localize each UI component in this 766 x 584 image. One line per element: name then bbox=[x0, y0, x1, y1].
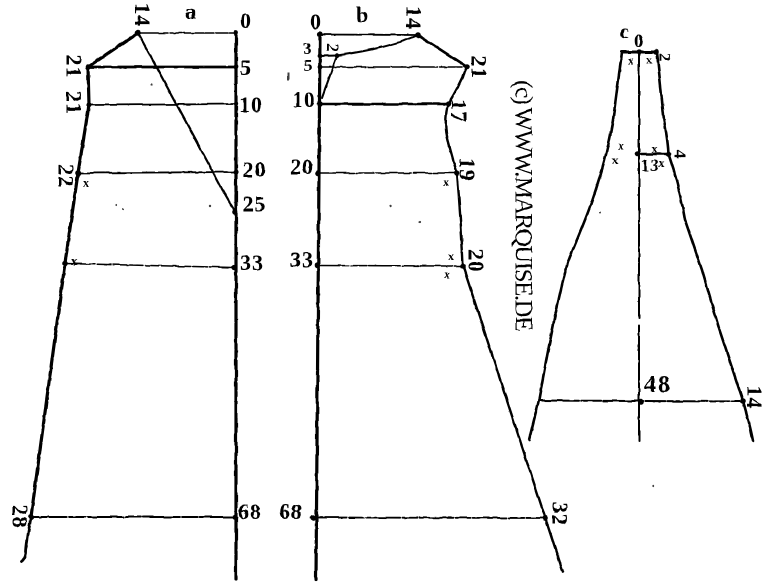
svg-text:2: 2 bbox=[656, 53, 675, 62]
svg-text:14: 14 bbox=[402, 6, 427, 30]
svg-text:x: x bbox=[83, 176, 89, 190]
piece a left edge 21 to 21 bbox=[88, 67, 89, 105]
piece a dots bbox=[28, 30, 238, 520]
piece a left edge 21 to 22 bbox=[78, 105, 89, 173]
svg-text:x: x bbox=[71, 254, 77, 268]
svg-text:x: x bbox=[444, 267, 450, 281]
piece a left edge below 28 with hook bbox=[21, 517, 31, 562]
piece b horizontal line 68 bbox=[313, 517, 545, 520]
svg-text:x: x bbox=[612, 153, 618, 167]
piece b side edge 17 to 19 bbox=[446, 104, 457, 173]
piece a left edge 22 to 33 bbox=[65, 173, 78, 263]
svg-text:20: 20 bbox=[464, 249, 489, 273]
piece b slanted line 2 down bbox=[322, 56, 337, 99]
piece b side edge 19 to 20 bbox=[457, 173, 463, 266]
piece a diagonal line 14 to 25 bbox=[138, 33, 235, 211]
piece b left vertical line (center front 0-68) bbox=[316, 34, 320, 579]
svg-text:33: 33 bbox=[240, 250, 264, 275]
svg-text:x: x bbox=[618, 139, 624, 153]
piece b dots bbox=[310, 31, 548, 520]
svg-text:68: 68 bbox=[279, 499, 303, 524]
piece c center vertical line upper bbox=[638, 52, 640, 318]
svg-text:a: a bbox=[185, 0, 197, 24]
piece a horizontal line 10 bbox=[89, 104, 236, 105]
svg-text:32: 32 bbox=[548, 502, 573, 526]
piece b horizontal line 33 bbox=[317, 265, 463, 268]
piece c top horizontal line bbox=[622, 51, 657, 54]
svg-text:33: 33 bbox=[290, 247, 314, 272]
piece b armhole curve 21 to 17 bbox=[448, 67, 467, 104]
piece b neck curve 2 to 14 bbox=[337, 35, 418, 56]
piece c horizontal line 48 bbox=[539, 401, 743, 402]
svg-text:0: 0 bbox=[240, 8, 252, 33]
piece a horizontal line 5 bbox=[88, 66, 236, 69]
scan noise specks bbox=[115, 73, 654, 487]
svg-text:22: 22 bbox=[54, 164, 79, 188]
piece b horizontal line 5 bbox=[320, 66, 467, 68]
piece b horizontal line 10 bbox=[320, 103, 448, 105]
svg-text:x: x bbox=[448, 249, 454, 263]
svg-text:13: 13 bbox=[641, 156, 659, 175]
svg-text:b: b bbox=[356, 2, 369, 27]
svg-text:c: c bbox=[620, 22, 629, 43]
piece a top horizontal line 0 bbox=[138, 32, 236, 34]
svg-text:10: 10 bbox=[239, 92, 263, 117]
svg-text:0: 0 bbox=[634, 31, 644, 52]
piece c horizontal line 13 bbox=[638, 153, 669, 156]
piece b side edge 20 to bottom through 32 bbox=[463, 266, 563, 572]
piece a horizontal line 20 bbox=[78, 172, 236, 173]
piece c center vertical line lower bbox=[638, 326, 640, 441]
svg-text:0: 0 bbox=[310, 9, 322, 34]
svg-text:28: 28 bbox=[8, 505, 33, 529]
svg-text:2: 2 bbox=[324, 44, 343, 53]
piece c dots bbox=[635, 49, 746, 405]
piece c left edge bbox=[529, 52, 622, 440]
piece a left edge 33 to 28 bbox=[31, 263, 65, 517]
svg-text:20: 20 bbox=[243, 157, 267, 182]
svg-text:x: x bbox=[443, 175, 449, 189]
piece b horizontal line 20 bbox=[318, 172, 457, 174]
svg-text:17: 17 bbox=[447, 99, 472, 123]
piece b shoulder line 14 to 21 bbox=[418, 35, 467, 67]
svg-text:14: 14 bbox=[130, 3, 155, 27]
svg-text:25: 25 bbox=[243, 192, 267, 217]
svg-text:14: 14 bbox=[742, 386, 766, 410]
svg-text:x: x bbox=[652, 142, 658, 156]
svg-text:21: 21 bbox=[62, 55, 87, 79]
svg-text:x: x bbox=[646, 53, 652, 67]
piece a horizontal line 68 bbox=[31, 516, 235, 518]
svg-text:68: 68 bbox=[238, 499, 262, 524]
piece a shoulder line 14 to 21 bbox=[88, 33, 138, 67]
svg-text:x: x bbox=[628, 53, 634, 67]
svg-text:19: 19 bbox=[455, 158, 480, 182]
svg-text:5: 5 bbox=[304, 56, 313, 75]
svg-text:5: 5 bbox=[240, 55, 252, 80]
piece a right vertical line (center back 0-68) bbox=[234, 33, 237, 579]
piece b top horizontal line 0 bbox=[320, 34, 418, 37]
svg-text:48: 48 bbox=[644, 372, 672, 398]
svg-text:21: 21 bbox=[62, 91, 87, 115]
svg-text:4: 4 bbox=[671, 150, 690, 159]
svg-text:10: 10 bbox=[292, 87, 316, 112]
piece a horizontal line 33 bbox=[65, 264, 234, 268]
piece b short line 3 bbox=[320, 55, 337, 58]
svg-text:x: x bbox=[659, 156, 665, 170]
svg-text:(c) WWW.MARQUISE.DE: (c) WWW.MARQUISE.DE bbox=[510, 80, 537, 331]
piece c right edge bbox=[657, 52, 753, 441]
svg-text:21: 21 bbox=[467, 56, 492, 80]
svg-text:20: 20 bbox=[290, 154, 314, 179]
